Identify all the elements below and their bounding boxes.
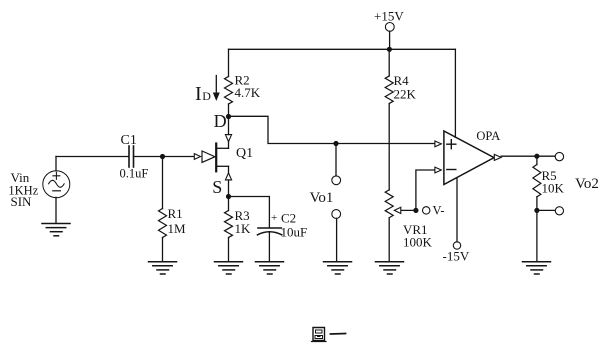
svg-text:C1: C1: [121, 133, 137, 148]
node Vo1 tap: [333, 141, 338, 146]
node gate junction: [160, 154, 165, 159]
resistor R5: [533, 165, 541, 197]
wire R5 top: [536, 156, 538, 164]
label R4 22K: [394, 73, 417, 102]
wire source bottom: [55, 197, 57, 223]
svg-text:+15V: +15V: [374, 8, 404, 23]
node output bottom: [534, 208, 539, 213]
label R1 1M: [168, 206, 187, 236]
resistor R4: [385, 76, 393, 104]
wiper arrow VR1: [394, 207, 416, 213]
ground (source): [42, 224, 70, 236]
wire +15V to op-amp: [454, 49, 456, 137]
capacitor C2: [258, 228, 282, 235]
potentiometer VR1: [385, 190, 393, 218]
source Vin: [43, 171, 70, 198]
label Vin 1KHz SIN: [8, 170, 38, 209]
wire Vo1 ground: [336, 218, 338, 261]
wire drain to op-amp: [229, 116, 436, 143]
ground (C2): [256, 262, 284, 274]
label R3 1K: [235, 208, 252, 236]
svg-text:0.1uF: 0.1uF: [120, 167, 149, 181]
svg-text:V-: V-: [433, 204, 445, 218]
wire output: [501, 155, 554, 157]
svg-text:10uF: 10uF: [281, 225, 308, 240]
svg-text:D: D: [202, 89, 211, 103]
wire R1 bottom: [162, 238, 164, 262]
wire C2 bottom: [268, 233, 270, 262]
terminal Vo1 bottom: [332, 210, 341, 219]
ground (R5): [523, 262, 551, 274]
wire wiper to -input: [416, 170, 435, 210]
resistor R3: [225, 211, 233, 238]
resistor R1: [159, 209, 167, 238]
input arrow +: [435, 141, 441, 147]
label ID: [195, 83, 211, 105]
wire R5 bottom: [536, 197, 538, 211]
node drain: [226, 114, 231, 119]
svg-text:SIN: SIN: [11, 194, 33, 209]
label VR1 100K: [403, 222, 433, 250]
gate arrow small: [194, 154, 200, 160]
wire R2 bottom: [228, 104, 230, 117]
wire +15V: [389, 31, 391, 49]
svg-text:C2: C2: [281, 211, 296, 226]
gate arrow large: [202, 151, 215, 162]
current arrow ID: [213, 76, 220, 102]
terminal Vo1 top: [332, 176, 341, 185]
wire top rail: [229, 48, 456, 50]
svg-text:Q1: Q1: [236, 146, 253, 161]
label + C2 10uF: [271, 211, 307, 240]
svg-text:R1: R1: [168, 206, 183, 221]
svg-text:4.7K: 4.7K: [235, 85, 261, 100]
wire R4 to VR1: [388, 104, 390, 190]
resistor R2: [225, 77, 233, 105]
svg-text:Vo1: Vo1: [310, 190, 334, 206]
node wiper: [413, 208, 418, 213]
wire R2 top: [228, 49, 230, 76]
wire to Vo2 bottom: [537, 209, 555, 211]
transistor Q1: [216, 117, 231, 197]
node +15V rail: [387, 47, 392, 52]
svg-text:1M: 1M: [168, 221, 187, 236]
svg-text:D: D: [214, 111, 227, 131]
node output top: [534, 154, 539, 159]
svg-text:S: S: [212, 177, 222, 197]
terminal +15V: [385, 23, 394, 32]
input arrow -: [435, 167, 441, 173]
wire source to C2: [229, 197, 270, 228]
svg-text:1K: 1K: [235, 221, 252, 236]
output arrow: [494, 154, 501, 160]
ground (VR1): [376, 262, 404, 274]
svg-text:OPA: OPA: [476, 129, 500, 143]
wire Vo1: [335, 144, 337, 176]
capacitor C1: [129, 146, 134, 167]
ground (R3): [215, 262, 243, 274]
label R2 4.7K: [235, 73, 261, 101]
wire C1 to gate: [134, 156, 195, 158]
terminal Vo2 bottom: [555, 207, 563, 215]
wire R1 top: [162, 157, 164, 209]
wire VR1 bottom: [388, 218, 390, 262]
wire R5 ground: [536, 210, 538, 261]
svg-text:100K: 100K: [403, 235, 433, 250]
terminal -15V: [453, 242, 460, 249]
wire input: [56, 156, 129, 158]
wire R4 top: [388, 49, 390, 76]
svg-text:22K: 22K: [394, 87, 417, 102]
ground (R1): [149, 262, 177, 274]
terminal Vo2 top: [555, 152, 563, 160]
label figure title 圖一: [312, 328, 346, 342]
svg-text:Vo2: Vo2: [575, 176, 599, 192]
svg-text:10K: 10K: [542, 181, 565, 196]
wire R3 top: [228, 197, 230, 211]
wire source top: [55, 157, 57, 171]
wire R3 bottom: [228, 238, 230, 262]
terminal V-: [423, 207, 430, 214]
ground (Vo1): [324, 262, 352, 274]
op-amp U1: [444, 131, 494, 185]
svg-text:I: I: [195, 83, 202, 105]
label R5 10K: [542, 168, 565, 196]
node source: [226, 194, 231, 199]
svg-text:-15V: -15V: [443, 248, 470, 263]
svg-text:+: +: [271, 212, 277, 224]
wire -15V: [456, 178, 458, 242]
